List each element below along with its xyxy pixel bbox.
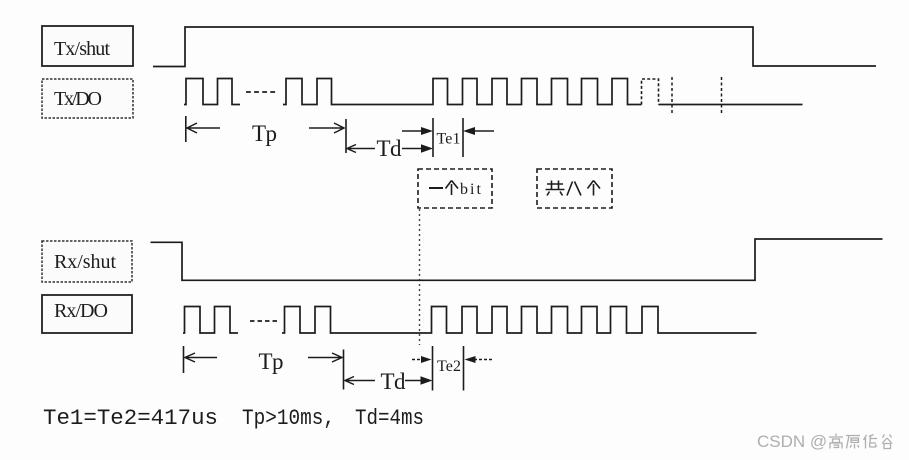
label Td (Tx) [377, 136, 403, 161]
watermark glyph gu [882, 435, 892, 449]
svg-text:bit: bit [460, 181, 482, 198]
watermark glyph gao [829, 434, 843, 449]
svg-text:Rx/shut: Rx/shut [54, 251, 116, 273]
label Te2 [437, 358, 461, 375]
watermark glyph yuan [846, 436, 860, 449]
label eight total glyph ge [588, 181, 601, 196]
dimension arrow Rx Te2 right filled dashed tail [412, 356, 432, 363]
signal label box Rx/shut [42, 241, 132, 282]
svg-text:Tp: Tp [252, 121, 277, 146]
dimension arrow Rx Td left [345, 377, 375, 385]
watermark glyph di [864, 435, 878, 449]
dimension bar Rx Td left [343, 350, 345, 390]
dimension bar Tx Te1 left [432, 118, 434, 157]
dimension arrow Tx Td left [347, 145, 375, 153]
signal label box Rx/DO [42, 295, 132, 333]
dimension arrow Tx Td right filled [402, 144, 433, 153]
node dashed separator line 2 on Tx/DO [721, 77, 723, 113]
label Te1 [437, 131, 461, 148]
svg-text:Te1=Te2=417us: Te1=Te2=417us [43, 406, 218, 431]
signal label box Tx/shut [42, 26, 133, 66]
node dashed separator line 1 on Tx/DO [671, 77, 673, 113]
svg-text:CSDN @: CSDN @ [757, 432, 827, 451]
wire Rx/DO waveform second group and bit pulses [282, 307, 757, 334]
svg-text:Td: Td [377, 136, 403, 161]
node dotted vertical reference line [419, 209, 421, 345]
svg-text:Te2: Te2 [437, 358, 461, 375]
dimension arrow Tx Te1 right filled [402, 127, 433, 135]
label Tp (Tx) [252, 121, 277, 146]
label eight total glyph ba [567, 182, 581, 196]
dimension bar Tx Te1 right [462, 118, 464, 157]
dimension arrow Rx Tp right [308, 353, 342, 362]
dimension bar Rx Tp left [183, 346, 185, 373]
wire Tx/DO dashed eighth bit pulse [642, 79, 659, 105]
wire Tx/DO trailing low line [659, 104, 803, 106]
wire Rx/DO waveform left pulse group [183, 307, 238, 334]
wire Rx/DO continuation dashes [250, 320, 277, 322]
svg-text:Tp: Tp [259, 349, 284, 374]
watermark CSDN latin part [757, 432, 827, 451]
dimension arrow Tx Tp right [309, 123, 344, 133]
label one bit latin [460, 181, 482, 198]
dashed annotation box one bit [418, 169, 492, 208]
dimension bar Tx Td left [345, 119, 347, 153]
dimension arrow Tx Tp left [187, 123, 220, 133]
svg-text:Td: Td [381, 369, 407, 394]
label one bit glyph yi [429, 187, 443, 189]
wire Tx/DO continuation dashes [246, 91, 277, 93]
svg-text:Rx/DO: Rx/DO [54, 300, 108, 322]
dimension arrow Rx Te2 left filled dashed tail [465, 356, 495, 363]
dimension bar Tx Tp left [185, 116, 187, 142]
label timing equation Te1=Te2=417us [43, 406, 218, 431]
label Tp (Rx) [259, 349, 284, 374]
dimension arrow Rx Tp left [185, 353, 217, 362]
dimension bar Rx Te2 right [463, 346, 465, 391]
dimension arrow Tx Te1 left filled [463, 127, 494, 135]
label timing equation Td=4ms [355, 406, 424, 431]
svg-text:Tx/DO: Tx/DO [54, 88, 102, 110]
dimension arrow Rx Td right filled [405, 376, 433, 385]
wire Tx/shut waveform [153, 27, 876, 67]
wire Rx/shut waveform [151, 239, 883, 280]
svg-text:Tx/shut: Tx/shut [54, 38, 110, 60]
label eight total glyph gong [546, 181, 565, 196]
wire Tx/DO waveform left pulse group [184, 79, 240, 105]
label timing equation Tp&gt;10ms, [242, 406, 335, 431]
signal label box Tx/DO [42, 79, 133, 118]
svg-text:Td=4ms: Td=4ms [355, 406, 424, 431]
wire Tx/DO waveform second group and bit pulses [283, 79, 642, 105]
label one bit glyph ge [446, 181, 459, 196]
label Td (Rx) [381, 369, 407, 394]
svg-text:Tp>10ms,: Tp>10ms, [242, 406, 335, 431]
dashed annotation box eight total [537, 169, 612, 208]
svg-text:Te1: Te1 [437, 131, 461, 148]
dimension bar Rx Te2 left [432, 346, 434, 391]
